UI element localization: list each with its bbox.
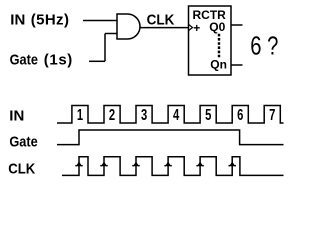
svg-text:CLK: CLK [8,160,36,177]
wire IN to AND gate input 1 [83,20,117,22]
Gate waveform [57,130,284,145]
counter U2 RCTR block body [189,6,232,75]
svg-text:Gate: Gate [10,50,39,67]
clock input edge-trigger symbol [189,24,193,30]
svg-text:+: + [193,21,200,35]
svg-text:5: 5 [205,105,211,124]
wire Gate horizontal segment [89,60,105,62]
CLK waveform [62,157,284,176]
svg-text:(5Hz): (5Hz) [31,12,70,29]
svg-text:Gate: Gate [9,132,38,149]
rising edge arrow 4 [165,161,171,166]
svg-text:CLK: CLK [147,12,175,29]
svg-text:Q0: Q0 [209,20,225,34]
svg-text:6 ?: 6 ? [250,31,278,60]
rising edge arrow 3 [133,161,139,166]
wire Gate to AND gate input 2 [105,33,117,35]
wire Gate vertical segment [104,34,106,62]
svg-text:(1s): (1s) [44,51,73,68]
svg-text:IN: IN [10,12,25,29]
svg-text:1: 1 [77,105,83,124]
svg-text:6: 6 [237,105,243,124]
IN waveform [57,106,284,124]
svg-text:3: 3 [141,105,147,124]
svg-text:7: 7 [269,105,275,124]
svg-text:Qn: Qn [210,57,227,71]
svg-text:IN: IN [9,107,24,124]
dotted line between Q0 and Qn [218,34,220,57]
svg-text:4: 4 [173,105,179,124]
wire CLK from AND gate to counter [140,27,189,29]
svg-text:2: 2 [109,105,115,124]
wire Q0 output [231,24,243,26]
wire Qn output [231,64,243,66]
AND gate U1 [117,14,140,39]
rising edge arrow 5 [197,161,203,166]
rising edge arrow 6 [229,161,235,166]
rising edge arrow 1 [76,161,82,166]
rising edge arrow 2 [101,161,107,166]
